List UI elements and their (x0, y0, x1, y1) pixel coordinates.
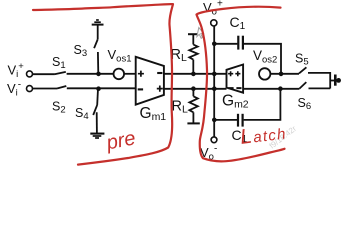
wire S3 branch upper stub (97, 25, 99, 40)
node junction row2/RL bottom (191, 86, 196, 91)
label gm1 minus left (138, 88, 143, 90)
node junction Vo column / row1 (212, 72, 217, 77)
node junction Vo column / row2 (212, 86, 217, 91)
op-amp Gm1 (136, 57, 164, 105)
voltage source Vos2 (259, 68, 270, 79)
label gm1 plus right (157, 86, 163, 92)
wire row1 from S1 to Vos1 (67, 73, 114, 75)
wire C1 bottom right (244, 89, 281, 120)
wire S4 branch upper (96, 89, 99, 105)
op-amp Gm2 (227, 65, 244, 93)
wire row1 from Vi+ to switch S1 (33, 73, 55, 75)
node junction row1/RL top (191, 72, 196, 77)
switch S2 (57, 86, 66, 89)
wire row1 Vos2 to S5 (270, 73, 299, 75)
node junction row2/S4 (96, 86, 101, 91)
annotation red stroke pre-box (33, 4, 173, 165)
node Vi+ terminal (27, 71, 33, 77)
wire Vo column (213, 26, 215, 137)
wire row1 S5 to output (308, 72, 330, 74)
resistor RL (top) (188, 34, 199, 74)
label gm1 minus right (157, 72, 162, 74)
ground (top, inverted) (92, 20, 104, 25)
label gm2 plus plus (228, 71, 240, 76)
label gm1 plus left (138, 71, 144, 77)
switch S1 (55, 72, 66, 74)
wire row2 Gm1 output to Gm2 (164, 88, 227, 90)
resistor RL (bottom) (187, 89, 199, 124)
node output dot (336, 78, 341, 83)
output load bar (334, 75, 337, 86)
node Vi- terminal (27, 86, 33, 92)
label gm2 minus minus (228, 87, 241, 89)
switch S6 (299, 82, 306, 89)
switch S4 (93, 105, 97, 115)
voltage source Vos1 (114, 69, 125, 80)
capacitor C1 (top) (238, 36, 243, 50)
wire row2 from S2 to Gm1 (67, 87, 136, 89)
wire row1 from Vos1 to Gm1 (124, 73, 136, 75)
ground (bottom) (90, 134, 104, 138)
wire C1 top right (244, 44, 281, 74)
wire row1 Gm1 output to Gm2 (164, 73, 227, 75)
wire C1 top left (214, 43, 237, 45)
wire row2 Gm2 to S6 (243, 88, 299, 90)
wire row2 S6 to output (309, 87, 331, 89)
switch S3 (94, 40, 98, 49)
wire output merge (329, 72, 331, 89)
node junction Vo column / C1 top (212, 42, 217, 47)
wire row2 from Vi- to switch S2 (33, 88, 57, 90)
wire C1 bottom left (214, 119, 237, 121)
node junction row1 / C1 right column (279, 72, 284, 77)
node junction row2 / C1 bottom right column (278, 86, 283, 91)
node junction Vo column / C1 bottom (212, 118, 217, 123)
capacitor C1 (bottom) (238, 114, 243, 127)
node Vo- terminal (211, 137, 217, 143)
cursor pointer (197, 28, 204, 39)
wire S4 branch lower (96, 112, 98, 133)
switch S5 (299, 67, 306, 73)
annotation red stroke latch divider (197, 7, 285, 162)
node junction row1/S3 (96, 72, 101, 77)
wire S3 branch lower (97, 52, 99, 74)
node Vo+ terminal (211, 20, 217, 26)
